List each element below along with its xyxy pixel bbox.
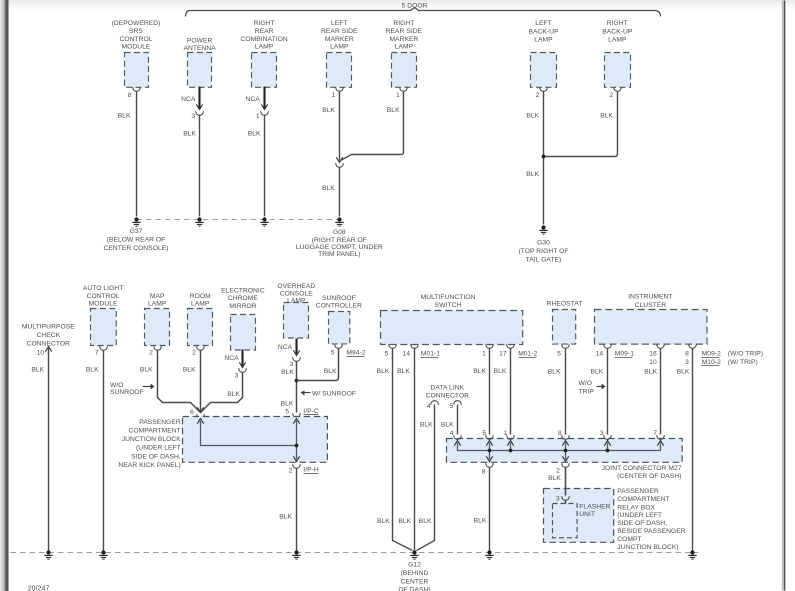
svg-text:COMPT: COMPT <box>617 536 641 543</box>
component: (DEPOWERED) SRS CONTROL MODULE <box>112 20 161 91</box>
component: ROOM LAMP <box>188 293 213 350</box>
svg-text:REAR SIDE: REAR SIDE <box>321 28 358 35</box>
svg-text:SIDE OF DASH,: SIDE OF DASH, <box>617 520 667 527</box>
pin 3 (flasher unit) <box>556 496 569 503</box>
component: LEFT BACK-UP LAMP <box>528 20 559 91</box>
svg-text:PASSENGER: PASSENGER <box>617 488 659 495</box>
svg-text:MODULE: MODULE <box>122 44 151 51</box>
svg-text:BLK: BLK <box>183 130 196 137</box>
ground G30 <box>518 225 568 263</box>
svg-text:UNIT: UNIT <box>579 511 595 518</box>
svg-text:FLASHER: FLASHER <box>579 503 610 510</box>
svg-text:CONSOLE: CONSOLE <box>280 290 314 297</box>
svg-text:M10-2: M10-2 <box>702 359 721 366</box>
node: 5 DOOR label <box>402 2 428 9</box>
svg-text:I/P-C: I/P-C <box>303 408 319 415</box>
svg-text:MARKER: MARKER <box>325 36 354 43</box>
svg-text:BLK: BLK <box>322 185 335 192</box>
svg-text:CHROME: CHROME <box>228 295 259 302</box>
svg-text:BESIDE PASSENGER: BESIDE PASSENGER <box>617 528 685 535</box>
svg-text:BLK: BLK <box>600 112 613 119</box>
svg-text:(W/ TRIP): (W/ TRIP) <box>728 359 758 366</box>
svg-text:6: 6 <box>190 409 194 416</box>
svg-text:NCA: NCA <box>224 355 239 362</box>
component: INSTRUMENT CLUSTER <box>595 294 708 345</box>
svg-text:RIGHT: RIGHT <box>393 20 414 27</box>
wire: ground link G37 to G08 (dashed) <box>137 219 340 221</box>
pin 2 (left back-up lamp) <box>536 92 540 99</box>
component: RIGHT REAR COMBINATION LAMP <box>240 20 287 87</box>
pin 6 (junction block entry) <box>190 409 194 416</box>
svg-text:8: 8 <box>685 351 689 358</box>
ground (auto light control module) <box>99 550 107 559</box>
svg-text:BLK: BLK <box>31 367 44 374</box>
svg-text:TAIL GATE): TAIL GATE) <box>526 256 562 263</box>
svg-text:(UNDER LEFT: (UNDER LEFT <box>136 445 181 452</box>
svg-text:SUNROOF: SUNROOF <box>110 389 144 396</box>
svg-text:5 DOOR: 5 DOOR <box>402 2 428 9</box>
svg-text:LUGGAGE COMPT, UNDER: LUGGAGE COMPT, UNDER <box>296 244 383 251</box>
wire: cluster pin 16/10 to joint connector M27, BLK <box>644 349 660 435</box>
svg-text:CENTER: CENTER <box>401 578 429 585</box>
svg-text:2: 2 <box>609 92 613 99</box>
wire: 5 DOOR bracket line <box>186 8 661 17</box>
pin 5 (data link connector) <box>450 401 462 411</box>
svg-text:LAMP: LAMP <box>148 301 167 308</box>
svg-text:5: 5 <box>482 430 486 437</box>
svg-text:5: 5 <box>557 351 561 358</box>
svg-text:1: 1 <box>482 351 486 358</box>
svg-text:BLK: BLK <box>526 112 539 119</box>
component: PASSENGER COMPARTMENT JUNCTION BLOCK <box>118 417 327 469</box>
svg-text:14: 14 <box>402 351 410 358</box>
wire: rheostat to joint connector M27, BLK <box>548 349 566 435</box>
wire: map lamp to junction block pin 6, BLK <box>140 351 201 413</box>
wire: junction block internal bus <box>197 419 299 462</box>
pin 1 (multifunction switch) <box>482 344 493 358</box>
svg-text:2: 2 <box>289 468 293 475</box>
svg-text:ROOM: ROOM <box>190 293 211 300</box>
svg-text:(DEPOWERED): (DEPOWERED) <box>112 20 161 27</box>
svg-text:3: 3 <box>556 496 560 503</box>
svg-text:5: 5 <box>450 403 454 410</box>
component: RIGHT REAR SIDE MARKER LAMP <box>386 20 423 91</box>
svg-text:BLK: BLK <box>548 475 561 482</box>
pin 14 (multifunction switch), connector M01-1 <box>402 344 440 358</box>
pin 2 / I-P-H (junction block exit) <box>289 464 319 475</box>
svg-text:RIGHT: RIGHT <box>254 20 275 27</box>
svg-text:16: 16 <box>649 351 657 358</box>
svg-text:2: 2 <box>536 92 540 99</box>
svg-text:LAMP: LAMP <box>255 44 274 51</box>
svg-text:BLK: BLK <box>227 391 240 398</box>
svg-text:BLK: BLK <box>118 113 131 120</box>
svg-text:5: 5 <box>385 351 389 358</box>
svg-text:PASSENGER: PASSENGER <box>139 419 181 426</box>
pin 5 (sunroof controller), connector M94-2 <box>331 350 366 357</box>
svg-text:BLK: BLK <box>387 107 400 114</box>
svg-text:3: 3 <box>600 430 604 437</box>
wire: multifunction pin 5 to G12, BLK <box>377 349 413 551</box>
svg-text:ANTENNA: ANTENNA <box>183 45 216 52</box>
junction (inside junction block) <box>295 444 299 448</box>
ground (instrument cluster) <box>688 550 696 559</box>
svg-text:BLK: BLK <box>322 107 335 114</box>
component: AUTO LIGHT CONTROL MODULE <box>83 285 124 350</box>
svg-text:BLK: BLK <box>398 518 411 525</box>
svg-text:14: 14 <box>596 351 604 358</box>
svg-text:8: 8 <box>128 92 132 99</box>
svg-text:BLK: BLK <box>248 130 261 137</box>
svg-text:CONTROL: CONTROL <box>119 36 152 43</box>
wire: room lamp to junction block pin 6, BLK <box>183 351 201 413</box>
pin 2 (map lamp) <box>149 350 153 357</box>
pin 8 (M27 exit) <box>482 463 494 475</box>
svg-text:DATA LINK: DATA LINK <box>430 384 464 391</box>
svg-text:LAMP: LAMP <box>191 301 210 308</box>
svg-text:(CENTER OF DASH): (CENTER OF DASH) <box>617 473 681 480</box>
node: merge into junction block pin 6 <box>197 407 205 418</box>
wire: bottom ground link (dashed) <box>11 552 699 554</box>
svg-text:CLUSTER: CLUSTER <box>635 302 667 309</box>
wire: sunroof controller to junction, BLK <box>297 349 339 381</box>
pin 7 (M27 entry) <box>653 430 664 439</box>
pins 8/3 (instrument cluster), connectors M09-2 / M10-2 <box>685 344 763 366</box>
pin 5 (rheostat) <box>557 351 561 358</box>
svg-text:SWITCH: SWITCH <box>435 302 462 309</box>
component: PASSENGER COMPARTMENT RELAY BOX <box>544 488 686 551</box>
svg-text:7: 7 <box>653 430 657 437</box>
splice connector (marker lamps junction) <box>336 157 344 167</box>
pin 3 (overhead console lamp) <box>290 361 294 368</box>
pin 5 (multifunction switch) <box>385 344 397 358</box>
svg-text:NCA: NCA <box>181 96 196 103</box>
wire: right marker lamp to splice, BLK <box>341 92 404 161</box>
node: W/O SUNROOF tag (map lamp wire) <box>110 382 155 396</box>
wire: antenna NCA lead <box>181 87 203 116</box>
svg-text:W/O: W/O <box>579 380 593 387</box>
svg-text:SRS: SRS <box>129 28 143 35</box>
svg-text:BLK: BLK <box>419 518 432 525</box>
svg-text:CONTROL: CONTROL <box>87 293 120 300</box>
svg-text:BLK: BLK <box>324 368 337 375</box>
pin 4 (data link connector) <box>427 401 438 411</box>
svg-text:3: 3 <box>685 359 689 366</box>
ground (M27 pin 8) <box>485 550 493 559</box>
svg-text:W/ SUNROOF: W/ SUNROOF <box>312 390 356 397</box>
svg-text:10: 10 <box>37 350 45 357</box>
svg-text:JOINT CONNECTOR M27: JOINT CONNECTOR M27 <box>602 465 682 472</box>
svg-text:ELECTRONIC: ELECTRONIC <box>221 287 265 294</box>
svg-text:BLK: BLK <box>397 368 410 375</box>
svg-text:1: 1 <box>396 92 400 99</box>
svg-text:BLK: BLK <box>473 368 486 375</box>
pin 1 (right marker lamp) <box>396 92 400 99</box>
component: SUNROOF CONTROLLER <box>316 295 362 348</box>
wire: mirror to junction block pin 6, BLK <box>201 373 243 413</box>
svg-text:M09-1: M09-1 <box>615 351 634 358</box>
svg-text:SIDE OF DASH,: SIDE OF DASH, <box>131 453 181 460</box>
svg-text:TRIM PANEL): TRIM PANEL) <box>318 251 360 258</box>
svg-text:BLK: BLK <box>420 422 433 429</box>
svg-text:8: 8 <box>482 469 486 476</box>
svg-text:G30: G30 <box>537 239 550 246</box>
wire: M27 pin 8 to ground, BLK <box>474 468 490 551</box>
svg-text:COMPARTMENT: COMPARTMENT <box>128 428 180 435</box>
svg-text:NCA: NCA <box>278 344 293 351</box>
pin 14 (instrument cluster), connector M09-1 <box>596 344 635 358</box>
wire: auto light module to ground, BLK <box>86 351 104 551</box>
pin 17 (multifunction switch), connector M01-2 <box>499 344 537 358</box>
svg-text:(BELOW REAR OF: (BELOW REAR OF <box>107 236 166 243</box>
wire: data link pin 4 to G12, BLK <box>417 405 435 551</box>
svg-text:COMPARTMENT: COMPARTMENT <box>617 496 669 503</box>
svg-text:BACK-UP: BACK-UP <box>528 28 559 35</box>
svg-text:INSTRUMENT: INSTRUMENT <box>628 294 672 301</box>
svg-text:BLK: BLK <box>494 368 507 375</box>
pin 2 (room lamp) <box>192 350 196 357</box>
component: MULTIFUNCTION SWITCH <box>381 294 523 345</box>
pin 1 (left marker lamp) <box>331 92 335 99</box>
svg-text:NEAR KICK PANEL): NEAR KICK PANEL) <box>118 462 180 469</box>
svg-text:M09-2: M09-2 <box>702 351 721 358</box>
junction (back-up lamps) <box>542 155 546 159</box>
svg-text:1: 1 <box>504 430 508 437</box>
wire: SRS module to G37, BLK <box>118 92 137 217</box>
page number 20/247 <box>28 586 50 591</box>
ground G37 <box>103 217 168 251</box>
pin 3 (power antenna) <box>191 113 195 120</box>
svg-text:COMBINATION: COMBINATION <box>240 36 287 43</box>
svg-text:3: 3 <box>290 361 294 368</box>
wire: multifunction pin 17 to joint connector M27, BLK <box>494 349 511 435</box>
svg-text:OVERHEAD: OVERHEAD <box>277 283 315 290</box>
wire: overhead console lamp to I/P-C, BLK <box>281 362 297 413</box>
svg-text:JUNCTION BLOCK: JUNCTION BLOCK <box>122 436 182 443</box>
svg-text:I/P-H: I/P-H <box>303 467 319 474</box>
wire: multifunction pin 1 to joint connector M27, BLK <box>473 349 489 435</box>
node: W/ SUNROOF tag <box>301 390 356 397</box>
svg-text:BLK: BLK <box>86 367 99 374</box>
svg-text:(TOP RIGHT OF: (TOP RIGHT OF <box>518 248 568 255</box>
wire: right back-up lamp to junction, BLK <box>544 92 618 157</box>
svg-text:M01-1: M01-1 <box>421 351 440 358</box>
wire: M27 internal bus <box>454 441 663 462</box>
svg-text:CONTROLLER: CONTROLLER <box>316 303 362 310</box>
svg-text:3: 3 <box>191 113 195 120</box>
wire: M27 pin 2 to flasher unit, BLK <box>548 468 565 496</box>
svg-text:CONNECTOR: CONNECTOR <box>426 393 470 400</box>
svg-text:10: 10 <box>649 359 657 366</box>
svg-text:NCA: NCA <box>246 96 261 103</box>
svg-text:5: 5 <box>285 408 289 415</box>
svg-text:M94-2: M94-2 <box>346 350 365 357</box>
svg-text:CENTER CONSOLE): CENTER CONSOLE) <box>103 245 168 252</box>
junction (overhead console lamp / sunroof controller) <box>295 379 299 383</box>
pin 8 (M27 entry) <box>558 430 569 439</box>
component: OVERHEAD CONSOLE LAMP <box>277 283 315 338</box>
svg-text:BACK-UP: BACK-UP <box>602 28 633 35</box>
node: W/O TRIP tag (cluster pin 14 wire) <box>579 380 606 396</box>
svg-text:W/O: W/O <box>110 382 124 389</box>
component: FLASHER UNIT <box>553 503 611 538</box>
pin 2 (right back-up lamp) <box>609 92 613 99</box>
wire: check connector to ground, BLK <box>31 347 51 551</box>
svg-text:REAR SIDE: REAR SIDE <box>386 28 423 35</box>
svg-text:LAMP: LAMP <box>608 37 627 44</box>
wire: splice to G08, BLK <box>322 168 339 217</box>
svg-text:BLK: BLK <box>474 518 487 525</box>
svg-text:MARKER: MARKER <box>389 36 418 43</box>
pin 5 (M27 entry) <box>482 430 493 439</box>
svg-text:2: 2 <box>556 468 560 475</box>
component: POWER ANTENNA <box>183 37 216 87</box>
pin 1 (M27 entry) <box>504 430 515 439</box>
svg-text:8: 8 <box>558 430 562 437</box>
svg-text:MODULE: MODULE <box>89 301 118 308</box>
svg-text:BLK: BLK <box>281 369 294 376</box>
svg-text:BLK: BLK <box>677 369 690 376</box>
svg-text:BLK: BLK <box>591 369 604 376</box>
junction dots (M27 bus) <box>488 449 610 453</box>
pin 8 (SRS control module) <box>128 92 132 99</box>
pin 4 (M27 entry) <box>450 430 462 439</box>
ground G08 <box>296 217 383 258</box>
svg-text:BLK: BLK <box>548 369 561 376</box>
svg-text:RHEOSTAT: RHEOSTAT <box>547 300 583 307</box>
wire: combination lamp to ground, BLK <box>248 115 265 217</box>
component: JOINT CONNECTOR M27 <box>447 439 683 480</box>
svg-text:LEFT: LEFT <box>331 20 348 27</box>
svg-text:1: 1 <box>331 92 335 99</box>
wire: cluster pin 14 to joint connector M27, BLK <box>591 349 608 435</box>
svg-text:4: 4 <box>450 430 454 437</box>
svg-text:2: 2 <box>192 350 196 357</box>
svg-text:BLK: BLK <box>281 400 294 407</box>
svg-text:MAP: MAP <box>150 293 165 300</box>
ground (multipurpose check connector) <box>44 550 52 559</box>
wire: I/P-H to ground, BLK <box>279 469 296 551</box>
wire: antenna to ground, BLK <box>183 115 199 217</box>
pin 1 (combination lamp) <box>256 113 260 120</box>
pin 3 (electronic chrome mirror) <box>235 373 239 380</box>
svg-text:MULTIFUNCTION: MULTIFUNCTION <box>421 294 476 301</box>
component: MAP LAMP <box>145 293 170 350</box>
svg-text:20/247: 20/247 <box>28 586 50 591</box>
component: DATA LINK CONNECTOR <box>426 384 470 399</box>
svg-text:OF DASH): OF DASH) <box>398 586 430 591</box>
svg-text:BLK: BLK <box>526 171 539 178</box>
wire: mirror NCA lead <box>224 350 246 373</box>
wire: flasher unit lead <box>565 501 567 504</box>
svg-text:REAR: REAR <box>255 28 274 35</box>
svg-text:2: 2 <box>149 350 153 357</box>
component: RIGHT BACK-UP LAMP <box>602 20 633 91</box>
svg-text:17: 17 <box>499 351 507 358</box>
component: RHEOSTAT <box>547 300 583 348</box>
svg-text:MIRROR: MIRROR <box>229 303 257 310</box>
wire: multifunction pin 14 to G12, BLK <box>397 349 414 551</box>
svg-text:TRIP: TRIP <box>579 389 595 396</box>
svg-text:BLK: BLK <box>644 369 657 376</box>
component: MULTIPURPOSE CHECK CONNECTOR <box>22 324 75 348</box>
svg-text:(UNDER LEFT: (UNDER LEFT <box>617 512 662 519</box>
ground (antenna, on G37-G08 link) <box>195 217 203 226</box>
svg-text:BLK: BLK <box>279 514 292 521</box>
svg-text:5: 5 <box>331 350 335 357</box>
svg-text:LAMP: LAMP <box>534 37 553 44</box>
pin 2 (M27 exit) <box>556 463 569 474</box>
svg-text:BLK: BLK <box>377 368 390 375</box>
svg-text:RIGHT: RIGHT <box>607 20 628 27</box>
svg-text:JUNCTION BLOCK): JUNCTION BLOCK) <box>617 544 678 551</box>
ground (combination lamp, on G37-G08 link) <box>260 217 268 226</box>
component: LEFT REAR SIDE MARKER LAMP <box>321 20 358 91</box>
component: ELECTRONIC CHROME MIRROR <box>221 287 265 350</box>
svg-text:POWER: POWER <box>187 37 213 44</box>
svg-text:BLK: BLK <box>441 422 454 429</box>
pin 3 (M27 entry) <box>600 430 612 439</box>
pins 16/10 (instrument cluster) <box>649 344 664 366</box>
svg-text:(RIGHT REAR OF: (RIGHT REAR OF <box>312 237 367 244</box>
svg-text:4: 4 <box>427 403 431 410</box>
svg-text:BLK: BLK <box>183 367 196 374</box>
svg-text:G12: G12 <box>408 561 421 568</box>
svg-text:LEFT: LEFT <box>535 20 552 27</box>
svg-text:7: 7 <box>95 350 99 357</box>
pin 5 / I-P-C (junction block entry) <box>285 408 318 417</box>
svg-text:SUNROOF: SUNROOF <box>322 295 356 302</box>
svg-text:CHECK: CHECK <box>36 332 60 339</box>
svg-text:MULTIPURPOSE: MULTIPURPOSE <box>22 324 75 331</box>
svg-text:RELAY BOX: RELAY BOX <box>617 504 655 511</box>
ground (junction block I/P-H) <box>292 550 300 559</box>
svg-text:G37: G37 <box>130 228 143 235</box>
wire: left marker lamp down, BLK <box>322 92 339 161</box>
wire: data link pin 5 to joint connector M27, BLK <box>441 405 458 435</box>
pin 10 (multipurpose check connector) <box>37 350 45 357</box>
wire: left back-up lamp to G30, BLK <box>526 92 543 225</box>
wire: overhead console lamp NCA lead <box>278 339 300 362</box>
svg-text:AUTO LIGHT: AUTO LIGHT <box>83 285 124 292</box>
svg-text:(W/O TRIP): (W/O TRIP) <box>728 351 763 358</box>
svg-text:1: 1 <box>256 113 260 120</box>
junction / ground G12 <box>398 550 430 591</box>
wire: combination lamp NCA lead <box>246 87 269 116</box>
pin 7 (auto light control module) <box>95 350 99 357</box>
svg-text:LAMP: LAMP <box>395 44 414 51</box>
svg-text:(BEHIND: (BEHIND <box>401 570 429 577</box>
svg-text:BLK: BLK <box>377 518 390 525</box>
svg-text:BLK: BLK <box>140 367 153 374</box>
wire: cluster pin 8/3 to ground, BLK <box>677 349 693 551</box>
svg-text:LAMP: LAMP <box>330 44 349 51</box>
svg-text:M01-2: M01-2 <box>518 351 537 358</box>
svg-text:G08: G08 <box>333 229 346 236</box>
svg-text:3: 3 <box>235 373 239 380</box>
